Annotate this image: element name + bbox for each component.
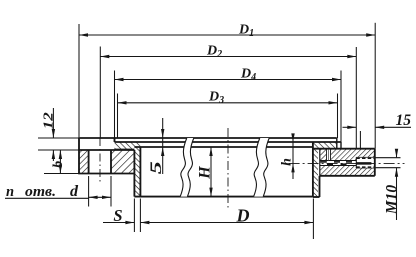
M10 hole top boundary xyxy=(356,156,375,158)
M10 arrow down xyxy=(395,149,398,158)
15 dimension line right segment xyxy=(375,126,411,128)
D2 right extension line xyxy=(355,47,357,149)
d hole left extension line xyxy=(88,176,90,207)
M10 thread end line xyxy=(355,157,357,168)
n otv d leader underline xyxy=(5,197,89,199)
D4 right extension line xyxy=(340,71,342,143)
M10 dimension line below xyxy=(396,168,398,220)
shell outer right corner vertical xyxy=(336,138,338,149)
d hole right extension line xyxy=(110,176,112,207)
12 lower extension line xyxy=(38,149,79,151)
interior top line xyxy=(134,146,313,148)
M10 upper extension line xyxy=(375,157,401,159)
narrow slot through boss (white) xyxy=(320,161,357,166)
M10 hole axis centerline xyxy=(289,162,405,164)
12 upper extension line xyxy=(38,137,79,139)
left flange hatched section right of bolt hole xyxy=(111,150,134,174)
b bottom arrow xyxy=(59,165,62,174)
svg-text:D: D xyxy=(236,205,250,225)
bolt hole left edge xyxy=(88,150,90,174)
D right extension line xyxy=(312,199,314,240)
right drum wall hatch xyxy=(313,149,318,197)
D1 dimension line xyxy=(79,34,375,36)
svg-text:d: d xyxy=(70,183,79,200)
flange top / shell outer surface line xyxy=(78,137,337,139)
12 dimension line above xyxy=(52,108,54,138)
right break white gap xyxy=(254,138,270,197)
D3 left extension line xyxy=(117,94,119,139)
left break wavy line 1 xyxy=(180,138,187,197)
12 arrow down onto flange top xyxy=(52,129,55,138)
S dimension line left segment xyxy=(103,222,134,224)
left wall outer face xyxy=(133,150,135,197)
M10 hole top edge thread dashes xyxy=(356,157,375,159)
b dimension line xyxy=(59,150,61,174)
svg-text:H: H xyxy=(197,166,214,180)
d right arrow xyxy=(102,196,111,199)
D left arrow xyxy=(140,221,149,224)
M10 threaded hole bore (white) xyxy=(356,157,375,168)
boss top line xyxy=(313,148,375,150)
b top arrow xyxy=(59,150,62,159)
D4 dimension line xyxy=(115,79,342,81)
svg-text:5: 5 xyxy=(148,161,165,174)
thread depth stub line xyxy=(359,131,361,149)
bolt hole centerline xyxy=(99,138,101,184)
left wall inner face xyxy=(139,147,141,197)
D dimension line xyxy=(140,222,313,224)
D2 dimension line xyxy=(100,56,356,58)
S right extension line xyxy=(139,199,141,233)
H dimension line xyxy=(210,147,212,197)
D2 left extension line xyxy=(99,47,101,139)
D3 left arrow xyxy=(118,101,127,104)
15 left arrow xyxy=(347,126,356,129)
svg-text:15: 15 xyxy=(396,112,412,129)
H top arrow xyxy=(209,147,212,156)
5 arrow down onto outer line xyxy=(161,129,164,138)
S left extension line xyxy=(133,199,135,233)
right wall inner face upper xyxy=(319,149,321,176)
12 arrow up onto flange mid xyxy=(52,150,55,159)
h arrow up onto M10 axis xyxy=(291,163,294,172)
right break wavy line 2 xyxy=(263,138,269,197)
d left arrow xyxy=(89,196,98,199)
D right arrow xyxy=(304,221,313,224)
right wall outer face xyxy=(312,142,314,197)
D4 left extension line xyxy=(114,71,116,143)
small slot boundary right xyxy=(330,149,332,161)
svg-text:b: b xyxy=(51,161,66,168)
right wall bottom edge xyxy=(313,196,320,198)
D1 left extension line xyxy=(78,24,80,137)
narrow slot top edge xyxy=(320,160,357,162)
left drum wall hatch xyxy=(134,147,140,197)
flange left face xyxy=(78,138,80,174)
interior bottom line xyxy=(134,196,313,198)
D1 left arrow xyxy=(79,33,88,36)
15 dimension line left segment xyxy=(343,126,357,128)
M10 dimension line above xyxy=(396,150,398,158)
boss right face xyxy=(374,149,376,176)
svg-text:h: h xyxy=(280,158,295,166)
small vertical slot in boss top (white) xyxy=(327,149,331,161)
shell band hatch left end xyxy=(115,142,141,149)
boss bottom edge xyxy=(320,175,375,177)
h dimension line xyxy=(292,134,294,179)
D4 left arrow xyxy=(115,78,124,81)
D4 right arrow xyxy=(332,78,341,81)
h arrow down onto band line xyxy=(291,133,294,142)
D2 right arrow xyxy=(347,55,356,58)
D3 dimension line xyxy=(118,102,338,104)
left break wavy line 2 xyxy=(187,138,193,197)
d dimension line xyxy=(89,196,111,198)
shell band hatch right end xyxy=(313,142,336,149)
S left arrow xyxy=(125,221,134,224)
svg-text:n: n xyxy=(6,184,14,200)
right boss block hatch xyxy=(320,149,375,176)
right wall inner face lower xyxy=(319,176,321,197)
left flange hatched section left of bolt hole xyxy=(79,150,89,174)
narrow slot bottom edge xyxy=(320,165,357,167)
D1 right extension line xyxy=(374,23,376,149)
15 right arrow xyxy=(375,126,384,129)
band left end vertical xyxy=(114,138,116,142)
small slot center line xyxy=(328,149,330,160)
rim band bottom edge xyxy=(115,148,135,150)
right break wavy line 1 xyxy=(254,138,260,197)
left break white gap xyxy=(180,138,194,197)
svg-text:S: S xyxy=(113,206,122,225)
M10 hole bottom edge thread dashes xyxy=(356,166,375,168)
H bottom arrow xyxy=(209,188,212,197)
vertical axis of symmetry centerline xyxy=(227,128,229,208)
small slot boundary left xyxy=(326,149,328,161)
D3 right arrow xyxy=(329,101,338,104)
bolt hole right edge xyxy=(110,150,112,174)
flange mid line xyxy=(78,149,134,151)
shell band line xyxy=(115,141,342,143)
5 arrow up onto interior line xyxy=(161,147,164,156)
D2 left arrow xyxy=(100,55,109,58)
M10 lower extension line xyxy=(375,167,401,169)
svg-text:отв.: отв. xyxy=(25,184,56,200)
D3 right extension line xyxy=(337,94,339,139)
svg-text:M10: M10 xyxy=(383,185,400,216)
D1 right arrow xyxy=(366,33,375,36)
rope middle dark band segments xyxy=(321,161,327,163)
M10 hole bottom boundary xyxy=(356,167,375,169)
band right end vertical xyxy=(340,142,342,149)
12 dimension line below xyxy=(52,150,54,161)
b lower extension line xyxy=(44,173,79,175)
5 dimension line xyxy=(162,118,164,174)
flange bottom line xyxy=(78,173,134,175)
svg-text:12: 12 xyxy=(42,112,57,129)
M10 arrow up xyxy=(395,168,398,177)
